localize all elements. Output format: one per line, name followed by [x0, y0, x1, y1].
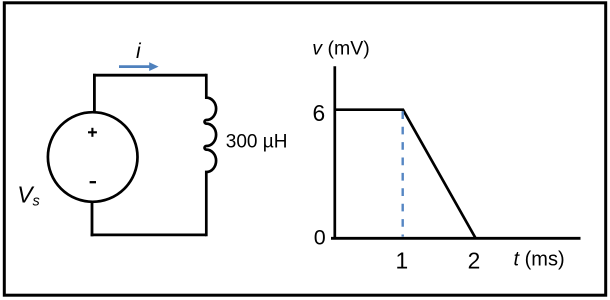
plus sign of source [88, 128, 97, 137]
dashed marker at t=1 [402, 111, 404, 236]
graph x-axis [331, 237, 581, 240]
inductor L 300uH [205, 74, 217, 237]
svg-text:0: 0 [314, 226, 326, 250]
svg-text:2: 2 [468, 248, 481, 274]
current arrow i [119, 62, 159, 71]
waveform v(t) [336, 110, 476, 238]
svg-text:300 µH: 300 µH [226, 132, 288, 153]
graph y-axis [333, 66, 336, 239]
wire top rail [93, 74, 206, 77]
svg-text:6: 6 [313, 100, 326, 126]
svg-text:t (ms): t (ms) [514, 249, 565, 271]
svg-text:v (mV): v (mV) [312, 38, 369, 60]
voltage source VS circle [48, 112, 138, 202]
svg-text:1: 1 [395, 248, 408, 274]
wire left bottom segment [91, 202, 94, 237]
minus sign of source [90, 181, 96, 183]
wire bottom rail [91, 233, 207, 236]
wire left top segment [93, 74, 96, 113]
